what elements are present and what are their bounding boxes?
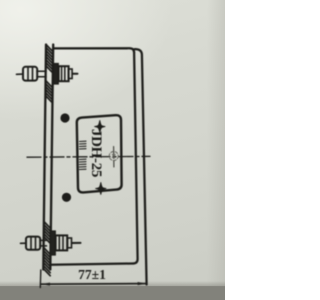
centerline vertical through circle — [113, 147, 115, 168]
nameplate small text block 1 — [80, 141, 87, 149]
nameplate JDH-25 — [77, 115, 122, 192]
mounting flange inner line — [50, 45, 53, 270]
terminal T1 tip — [17, 73, 24, 75]
mounting flange outer line — [43, 45, 46, 270]
nameplate small text block 2 — [80, 159, 87, 169]
flange section hatching — [43, 45, 53, 276]
terminal T1 neck — [37, 71, 46, 77]
star symbol bottom — [95, 182, 106, 194]
dimension line 77+/-1 — [41, 283, 147, 286]
rivet dot upper — [60, 113, 69, 122]
terminal T2 end disc — [68, 238, 72, 248]
dim arrow left — [41, 283, 50, 286]
terminal T2 nut — [56, 235, 68, 250]
dimension extension line left — [39, 270, 42, 288]
svg-text:JDH-25: JDH-25 — [88, 129, 104, 177]
terminal T2 hex head — [26, 237, 40, 250]
relay can top edge — [53, 48, 134, 52]
terminal T2 washer plate — [50, 231, 55, 255]
terminal T1 washer plate — [53, 64, 58, 85]
terminal T1 nut — [59, 66, 69, 81]
dim arrow right — [138, 282, 147, 285]
terminal T1 end disc — [68, 69, 72, 79]
terminal T2 tip — [21, 242, 27, 244]
svg-text:77±1: 77±1 — [78, 267, 106, 282]
inspection circle symbol — [109, 152, 118, 161]
horizontal centerline — [27, 147, 150, 168]
terminal T1 hex head — [23, 67, 37, 81]
terminal T1 stud end — [73, 73, 78, 75]
terminal T2 stud end — [72, 242, 81, 244]
terminal T2 neck — [40, 240, 47, 246]
rivet dot lower — [62, 193, 71, 202]
star symbol top — [94, 120, 105, 132]
relay can inner right wall — [133, 53, 137, 264]
relay can bottom edge — [51, 264, 133, 265]
relay can outer lip — [134, 49, 146, 284]
